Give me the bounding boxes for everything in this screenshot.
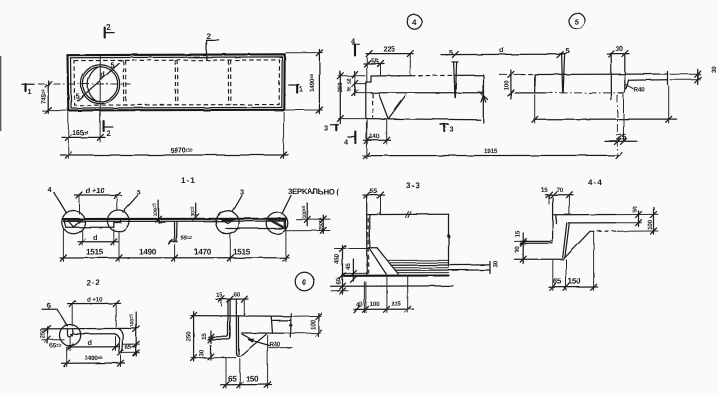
svg-text:5: 5 [137, 188, 141, 197]
dim 15/70 top [546, 194, 574, 196]
flange top [521, 240, 553, 242]
d leader tick [100, 77, 102, 80]
right end rib triangle [268, 220, 284, 229]
flag 3 below slab [440, 123, 449, 125]
middle anchor loop [175, 222, 178, 242]
dim 30±2 middle [195, 203, 197, 219]
panel inner frame line [71, 57, 283, 108]
transition triangle circle 3 [222, 220, 233, 224]
slab bottom edge [371, 92, 484, 94]
end riser with arrow [482, 96, 484, 123]
lower rib line [331, 285, 454, 287]
dim 30 right [670, 73, 701, 75]
dim 100 left [499, 73, 521, 75]
svg-text:100: 100 [310, 319, 317, 330]
svg-text:d: d [88, 338, 92, 347]
balloon 6 [295, 272, 314, 291]
callout circle [60, 325, 81, 346]
svg-text:2: 2 [207, 32, 212, 41]
bottom dim extensions [62, 230, 64, 262]
left edge [552, 198, 554, 242]
bottom dims 65/150 [225, 358, 227, 389]
svg-text:5: 5 [111, 61, 115, 70]
hidden dashed [590, 230, 616, 232]
svg-text:50: 50 [347, 78, 353, 84]
flange bottom [521, 242, 553, 244]
svg-text:3: 3 [450, 125, 454, 134]
leader dot [447, 234, 450, 237]
svg-text:55: 55 [370, 187, 378, 196]
section mark 2 bottom [103, 121, 105, 131]
dashed divider 3 [227, 60, 229, 105]
seam vertical [271, 317, 272, 333]
rib inner top [555, 215, 557, 223]
loop bar lines [387, 259, 448, 261]
svg-text:30: 30 [493, 260, 500, 267]
svg-text:250: 250 [337, 82, 344, 93]
svg-text:140: 140 [370, 133, 381, 140]
slab top edge [371, 75, 411, 77]
thin end tick [667, 72, 669, 85]
slab left end [534, 75, 536, 93]
svg-text:30: 30 [615, 44, 623, 53]
haunch diagonal [240, 334, 266, 356]
svg-text:450: 450 [334, 254, 341, 265]
bottom dims 65/150 [552, 261, 554, 291]
svg-text:d: d [93, 233, 97, 242]
callout circle 4 [266, 212, 288, 234]
svg-text:2: 2 [107, 23, 112, 32]
haunch diagonal [565, 231, 590, 257]
dim d [69, 338, 71, 351]
step in circle 2 [114, 219, 121, 227]
right end closure [285, 219, 287, 228]
svg-text:6: 6 [302, 278, 307, 287]
left dims 15/90 [515, 240, 522, 242]
leader 6 [42, 309, 67, 326]
bottom edge bold [344, 274, 449, 276]
right dim 100 [292, 315, 321, 317]
dim d [441, 53, 563, 55]
R40 label with arrow [249, 340, 270, 346]
flange [208, 335, 228, 337]
fillet arc [242, 334, 250, 339]
dim 250 left [339, 75, 366, 77]
slab top dashed start [521, 74, 535, 76]
rib left edge [366, 197, 368, 276]
dim 100±5 left [158, 201, 160, 223]
slab bottom bold [242, 332, 291, 334]
callout circle 3 [216, 211, 239, 234]
section mark 2 top [104, 28, 106, 38]
svg-text:100: 100 [647, 219, 654, 230]
leader 5 [123, 196, 138, 213]
panel outer frame [68, 54, 285, 110]
svg-text:1490: 1490 [139, 248, 157, 257]
svg-text:50: 50 [632, 205, 639, 212]
left dim 250 [191, 357, 236, 359]
dim 1490±5 right [286, 52, 323, 54]
leader 3 [233, 196, 243, 213]
svg-text:15: 15 [216, 292, 223, 299]
left hook [68, 329, 74, 337]
dim 5970±10 [283, 112, 285, 159]
svg-text:R40: R40 [634, 87, 646, 94]
slab top [553, 214, 616, 216]
dim 1490±5 [66, 348, 68, 367]
right dims [123, 343, 140, 345]
bottom dim line [60, 257, 289, 259]
rib taper inner [379, 95, 388, 118]
svg-text:100: 100 [370, 301, 381, 308]
svg-text:6: 6 [47, 301, 51, 310]
centerline horizontal [38, 83, 131, 85]
dim 450 with 65 [342, 246, 344, 295]
dim 55 [364, 63, 385, 65]
weld mark 5 [562, 54, 565, 93]
axis dash-dot below [616, 95, 618, 158]
svg-text:5: 5 [575, 18, 580, 27]
centerline vertical [99, 56, 101, 143]
svg-text:115: 115 [391, 301, 401, 308]
bottom edge [515, 258, 564, 260]
svg-text:4: 4 [412, 18, 417, 27]
slab top edge [191, 315, 291, 318]
right end vertical [448, 214, 450, 268]
rib taper pair [563, 223, 570, 258]
svg-text:250: 250 [40, 328, 47, 339]
left end closure [64, 219, 67, 227]
dashed divider 1 [122, 60, 124, 105]
dim 140 bottom [366, 120, 368, 144]
section mark 1 right [289, 84, 300, 86]
ext line left upper [335, 248, 370, 250]
crescent arc [88, 68, 98, 102]
svg-text:65: 65 [336, 277, 343, 284]
svg-text:1: 1 [299, 85, 303, 94]
haunch slope left [369, 248, 386, 274]
svg-text:1515: 1515 [233, 248, 251, 257]
top dims 15/60 [216, 298, 248, 300]
strip lower line [63, 220, 285, 222]
bottom dim extensions [363, 282, 365, 313]
left lip step [366, 76, 371, 82]
svg-text:50: 50 [347, 86, 353, 92]
svg-text:30: 30 [199, 349, 206, 356]
svg-text:65: 65 [553, 277, 562, 286]
slab bottom [569, 222, 617, 224]
dim 45 [352, 259, 354, 281]
svg-text:15: 15 [515, 230, 522, 237]
thin slab lines [391, 264, 490, 266]
bottom corner rise [564, 258, 566, 260]
strip bottom edge [73, 333, 115, 335]
dim d below [81, 230, 83, 246]
end vertical with dot [290, 313, 292, 337]
dim 745±4 extension bottom [42, 110, 66, 112]
slab top edge [535, 73, 668, 76]
dashed divider 2 [174, 60, 176, 105]
balloon 5 [569, 13, 585, 29]
svg-text:15: 15 [541, 187, 548, 194]
right hook [118, 329, 122, 354]
svg-text:65: 65 [228, 375, 237, 384]
dim 25 [605, 140, 637, 142]
rib hidden dashed [367, 218, 369, 274]
leader 2 to dashed outline [206, 40, 219, 59]
hidden edge dashed [372, 94, 374, 118]
rib taper outer [389, 95, 407, 119]
callout circle 2 [107, 210, 129, 232]
haunch slope right [377, 248, 398, 274]
svg-text:45: 45 [345, 263, 352, 270]
svg-text:4-4: 4-4 [588, 178, 603, 187]
right ext lines [617, 213, 658, 215]
hole circle inner [83, 67, 118, 102]
dim 15 inner [210, 331, 212, 344]
svg-text:250: 250 [185, 331, 192, 342]
svg-text:5: 5 [76, 92, 80, 101]
slab top edge [367, 213, 449, 215]
bottom dim line [354, 308, 414, 310]
svg-text:R40: R40 [270, 342, 282, 349]
leader 4 [54, 193, 67, 214]
dim 225 [366, 53, 413, 55]
strip top edge [63, 218, 285, 221]
svg-text:5: 5 [449, 48, 453, 57]
weld mark 5 [454, 62, 457, 98]
svg-text:1515: 1515 [86, 248, 104, 257]
unlabeled dim line below [534, 95, 536, 124]
callout circle 1 [62, 211, 85, 234]
balloon 4 [407, 15, 421, 29]
svg-text:3: 3 [240, 188, 244, 197]
diagonal through hole [78, 64, 120, 101]
dim 55 top [363, 194, 385, 196]
svg-text:d +10: d +10 [85, 186, 105, 195]
rib left face pair [227, 300, 229, 335]
dim 50/50 inner chain [354, 72, 356, 96]
rib right face pair [235, 300, 237, 354]
slab right end [483, 75, 485, 96]
svg-text:d +10: d +10 [87, 297, 103, 304]
svg-text:150: 150 [246, 375, 260, 384]
svg-text:1: 1 [28, 87, 32, 96]
svg-text:100: 100 [504, 80, 511, 91]
left end rib triangle [68, 220, 82, 227]
svg-text:30: 30 [711, 66, 718, 73]
svg-text:3EPKAЛЬНО (: 3EPKAЛЬНО ( [288, 187, 339, 196]
right thick bottom [226, 228, 286, 230]
flag 4 bottom [354, 132, 356, 144]
scan edge artifact [0, 56, 2, 131]
dim 100±5 right [306, 203, 308, 226]
left dim 90±5 [42, 339, 64, 341]
svg-text:2-2: 2-2 [86, 278, 101, 287]
R40 label [626, 85, 634, 89]
svg-text:150: 150 [568, 277, 582, 286]
dim 745±4 line [47, 81, 49, 114]
dim d+10 top [78, 196, 80, 214]
rib foot [237, 353, 241, 356]
svg-text:90: 90 [514, 246, 521, 253]
fillet rise R40 [619, 80, 629, 93]
dim d+10 top [71, 305, 73, 326]
svg-text:5: 5 [566, 46, 570, 55]
dim 250±4 far right [284, 230, 330, 232]
plate mark 30 [610, 54, 612, 100]
thin bottom line [273, 319, 291, 321]
svg-text:2: 2 [107, 129, 112, 138]
rib right edge [369, 215, 371, 248]
dim 50 right [638, 211, 640, 227]
svg-text:225: 225 [384, 45, 396, 54]
dim 1915 [363, 154, 620, 156]
flag 4 top [353, 43, 360, 45]
inner dashed rectangle [74, 60, 280, 105]
section mark 1 left [22, 83, 34, 85]
svg-text:1470: 1470 [194, 248, 212, 257]
left edge [365, 82, 367, 119]
svg-text:60: 60 [234, 292, 241, 299]
slab bottom dash-dot [545, 92, 619, 94]
svg-text:1-1: 1-1 [181, 176, 196, 185]
svg-text:1915: 1915 [484, 148, 498, 155]
svg-text:55: 55 [371, 57, 379, 66]
svg-text:40: 40 [356, 302, 363, 309]
svg-text:70: 70 [557, 187, 564, 194]
strip top edge [42, 327, 136, 330]
hole circle outer [81, 65, 120, 104]
break tick [406, 212, 412, 218]
rib bottom plane (extends under slab) [366, 119, 481, 120]
dim 165±4 [67, 112, 69, 159]
svg-text:d: d [500, 46, 504, 55]
thin bottom edge [629, 79, 668, 81]
slab bottom solid [515, 92, 545, 94]
leader mirrored label [283, 196, 292, 213]
ext line 45 lower [343, 272, 367, 274]
haunch top [370, 247, 377, 249]
svg-text:25: 25 [618, 133, 627, 142]
dim 100 right [653, 207, 655, 234]
left thick bottom [66, 226, 114, 228]
svg-text:15: 15 [201, 332, 208, 339]
svg-text:3: 3 [324, 124, 328, 133]
svg-text:3-3: 3-3 [406, 181, 421, 190]
dim 30 inner [210, 345, 212, 360]
